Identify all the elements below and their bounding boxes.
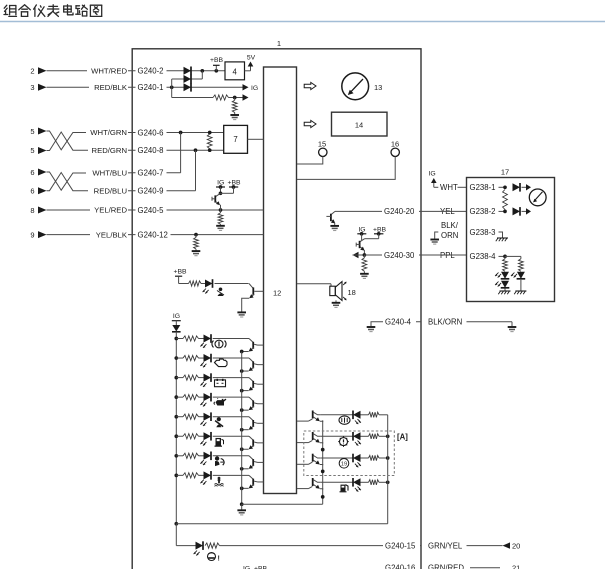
svg-text:20: 20 bbox=[512, 541, 520, 550]
resistor row 3 bbox=[183, 375, 199, 380]
hollow arrow 1 bbox=[304, 82, 316, 89]
pin label G238-3 bbox=[468, 227, 499, 237]
wire IC12 to speaker bbox=[297, 284, 331, 287]
rail dot washer fluid bbox=[386, 480, 390, 484]
svg-text:IG: IG bbox=[173, 313, 180, 320]
pin label G240-30 bbox=[382, 250, 419, 260]
svg-text:GRN/RED: GRN/RED bbox=[428, 564, 464, 569]
node dot sense bbox=[233, 96, 237, 100]
label BLK/ORN 2-line bbox=[441, 221, 459, 240]
regulator box 4 bbox=[225, 62, 245, 80]
wire G240-30 row bbox=[364, 254, 421, 256]
rail dot gear warning bbox=[386, 434, 390, 438]
wire row 1 bbox=[176, 338, 249, 340]
wire row 3 bbox=[176, 377, 249, 379]
svg-text:+BB: +BB bbox=[173, 268, 187, 275]
pin 20 arrow bbox=[503, 541, 521, 550]
node dot rail row 8 bbox=[174, 474, 178, 478]
rail diode D5 bbox=[172, 325, 181, 332]
brake LED D18 bbox=[176, 541, 203, 550]
svg-text:!: ! bbox=[218, 555, 220, 562]
twisted pair wire RED/BLU bbox=[47, 173, 133, 191]
speaker sound arrows bbox=[343, 282, 346, 301]
svg-text:RED/GRN: RED/GRN bbox=[92, 146, 127, 155]
LED D15 bbox=[353, 432, 361, 441]
resistor R6 bbox=[189, 281, 202, 286]
wire G238-4 branch bbox=[505, 256, 521, 258]
wire +BB LED row bbox=[179, 283, 249, 285]
LED D17 bbox=[353, 478, 361, 487]
node dot G240-6 bbox=[179, 131, 183, 135]
svg-text:WHT: WHT bbox=[440, 183, 458, 192]
node dot rail row 1 bbox=[174, 337, 178, 341]
icon brake warning bbox=[208, 553, 220, 563]
svg-text:7: 7 bbox=[233, 135, 237, 144]
svg-text:5V: 5V bbox=[247, 55, 256, 62]
resistor R9 vertical bbox=[503, 190, 508, 210]
wire row gear warning bbox=[321, 435, 388, 437]
wire YEL to G238-2 bbox=[421, 210, 467, 212]
svg-text:G238-1: G238-1 bbox=[470, 183, 496, 192]
LED D10 bbox=[204, 412, 212, 421]
node dot G238-4 bbox=[503, 255, 507, 259]
+BB supply stub Q12 bbox=[373, 226, 387, 235]
svg-text:21: 21 bbox=[512, 564, 520, 569]
LED D4 bbox=[205, 279, 213, 288]
transistor Q6 bbox=[242, 397, 264, 410]
pin label G240-1 bbox=[136, 83, 167, 93]
resistor row 2 bbox=[183, 355, 199, 360]
icon washer fluid bbox=[340, 485, 349, 492]
label WHT/BLU bbox=[86, 168, 128, 178]
+BB supply stub LED row bbox=[173, 268, 187, 283]
resistor row 5 bbox=[183, 414, 199, 419]
pin 5 arrow (top) bbox=[30, 127, 46, 136]
emitter rail dot row 8 bbox=[240, 487, 244, 491]
wire pin2 to G240-2 bbox=[47, 70, 133, 72]
ground G6 bbox=[330, 226, 339, 231]
pin 9 arrow bbox=[30, 230, 46, 239]
resistor R11 vertical bbox=[519, 259, 524, 272]
svg-text:IG: IG bbox=[217, 179, 224, 186]
IG supply stub Q12 bbox=[357, 226, 366, 235]
right feed rail bbox=[387, 415, 389, 524]
emitter rail dot row 2 bbox=[240, 369, 244, 373]
icon coolant temp bbox=[215, 477, 224, 487]
ground G12 hatched bbox=[514, 280, 526, 294]
ground G10 hatched bbox=[496, 238, 508, 241]
resistor R5 vertical bbox=[194, 235, 199, 249]
pin label G240-4 bbox=[383, 317, 416, 327]
wire G238-3 stub bbox=[499, 232, 503, 238]
cross wire emitters right cluster bbox=[242, 503, 323, 505]
wire pin8 to G240-5 bbox=[47, 209, 133, 211]
node dot G240-30 bbox=[363, 253, 367, 257]
label YEL/BLK bbox=[90, 230, 128, 240]
node dot G240-2 bbox=[200, 69, 204, 73]
ground G7 bbox=[360, 271, 369, 278]
title 组合仪表电路图 (drawn strokes) bbox=[4, 5, 102, 17]
svg-text:BLK/: BLK/ bbox=[441, 221, 459, 230]
LED D16 bbox=[353, 454, 361, 463]
LED D6 emission arrows bbox=[200, 343, 206, 348]
node dot rail row 6 bbox=[174, 434, 178, 438]
svg-text:G238-4: G238-4 bbox=[470, 252, 497, 261]
svg-text:+BB: +BB bbox=[373, 226, 387, 233]
gauge 17 meter bbox=[529, 189, 546, 206]
label WHT/GRN bbox=[86, 128, 128, 138]
svg-text:G240-9: G240-9 bbox=[138, 187, 164, 196]
icon seat-belt reminder bbox=[217, 288, 224, 297]
ground G2 bbox=[216, 224, 225, 230]
terminal 15 bbox=[318, 139, 327, 156]
arrowhead sense bbox=[243, 94, 249, 100]
pin label G238-4 bbox=[468, 251, 506, 261]
label PPL bbox=[438, 250, 456, 260]
left arrowhead G240-30 bbox=[353, 252, 365, 258]
pin 6 arrow (top) bbox=[30, 168, 46, 177]
LED D9 emission arrows bbox=[200, 401, 206, 406]
svg-text:13: 13 bbox=[374, 83, 382, 92]
transistor Q1 bbox=[212, 187, 234, 210]
wire G240-1 row bbox=[132, 86, 245, 88]
resistor row 6 bbox=[183, 434, 199, 439]
transistor Q12 bbox=[356, 234, 379, 255]
wire row 5 bbox=[176, 416, 249, 418]
resistor R8 bbox=[205, 543, 220, 548]
LED D21 bbox=[501, 272, 510, 279]
wire G240-5 row bbox=[132, 209, 263, 211]
icon seat belt bbox=[215, 417, 223, 427]
LED D12 emission arrows bbox=[200, 460, 206, 465]
left ground bracket G240-4 bbox=[367, 322, 421, 332]
LED D13 emission arrows bbox=[200, 480, 206, 485]
label GRN/YEL bbox=[426, 541, 466, 551]
wire G240-20 row bbox=[335, 210, 421, 212]
pin label G238-1 bbox=[468, 183, 506, 193]
connector box 1 outline bbox=[132, 49, 421, 569]
transistor Q11 bbox=[326, 211, 335, 225]
svg-text:G240-2: G240-2 bbox=[138, 67, 164, 76]
IG supply bracket bbox=[429, 170, 439, 187]
5V output arrow bbox=[245, 55, 256, 71]
LED D15 emission arrows bbox=[355, 441, 361, 446]
svg-text:3: 3 bbox=[30, 83, 34, 92]
label 1 bbox=[277, 39, 281, 48]
resistor R7 vertical bbox=[362, 255, 367, 271]
node dot rail row 4 bbox=[174, 395, 178, 399]
svg-text:G240-1: G240-1 bbox=[138, 83, 164, 92]
svg-text:6: 6 bbox=[30, 187, 34, 196]
resistor row gear warning bbox=[369, 434, 380, 439]
hollow arrow 2 bbox=[304, 120, 316, 127]
label WHT/RED bbox=[87, 66, 128, 76]
svg-text:1: 1 bbox=[277, 39, 281, 48]
svg-text:G240-8: G240-8 bbox=[138, 146, 164, 155]
transistor Q10 bbox=[242, 475, 264, 488]
icon brake fluid bbox=[212, 340, 226, 348]
LED D23 emission arrows bbox=[511, 273, 517, 278]
wire terminal 15 to IC12 bbox=[297, 157, 323, 165]
pin 8 arrow bbox=[30, 206, 46, 215]
svg-text:G240-15: G240-15 bbox=[385, 541, 416, 550]
svg-text:YEL/RED: YEL/RED bbox=[94, 206, 127, 215]
LED D22 emission arrows bbox=[495, 282, 501, 287]
label 18 bbox=[348, 288, 356, 297]
pin label G238-2 bbox=[468, 206, 506, 216]
transistor Q9 bbox=[242, 456, 264, 469]
resistor row 7 bbox=[183, 453, 199, 458]
wire pin3 to G240-1 bbox=[47, 86, 133, 88]
dashed box [A] bbox=[304, 431, 395, 476]
pin label G240-15 bbox=[383, 541, 420, 551]
label YEL bbox=[438, 207, 456, 217]
wire base Q16 from IC12 bbox=[297, 488, 309, 490]
svg-text:WHT/RED: WHT/RED bbox=[91, 66, 127, 75]
pin label G240-12 bbox=[136, 230, 171, 240]
label [A] bbox=[397, 433, 408, 442]
node dot rail row 7 bbox=[174, 454, 178, 458]
svg-text:RED/BLK: RED/BLK bbox=[94, 83, 128, 92]
wire G240-9 row bbox=[132, 190, 195, 192]
label RED/BLU bbox=[88, 186, 128, 196]
LED D16 emission arrows bbox=[355, 462, 361, 467]
label 13 bbox=[374, 83, 382, 92]
resistor row 4 bbox=[183, 395, 199, 400]
IG rail vertical bbox=[175, 332, 177, 524]
ground G5 main bbox=[237, 504, 246, 515]
wire G240-12 row bbox=[132, 234, 263, 236]
LED D11 bbox=[204, 432, 212, 441]
emitter rail dot row 1 bbox=[240, 350, 244, 354]
link G240-7 to G240-6 bbox=[180, 133, 182, 173]
icon charge/battery bbox=[215, 380, 226, 387]
ground G4 bbox=[237, 312, 246, 317]
IG supply stub Q1 bbox=[216, 179, 225, 189]
sense branch wire bbox=[172, 87, 247, 97]
svg-text:YEL/BLK: YEL/BLK bbox=[96, 230, 128, 239]
svg-text:G240-4: G240-4 bbox=[385, 318, 412, 327]
svg-text:[A]: [A] bbox=[397, 433, 408, 442]
+BB tap at top bbox=[210, 57, 224, 73]
node dot G240-12 bbox=[194, 233, 198, 237]
wire row 4 bbox=[176, 396, 249, 398]
wire box7 to IC12 bbox=[248, 138, 264, 140]
icon security indicator bbox=[339, 416, 350, 424]
ground bracket G238-3 bbox=[430, 232, 439, 244]
svg-text:4: 4 bbox=[233, 67, 238, 76]
label RED/GRN bbox=[88, 146, 128, 156]
ground G9 bbox=[508, 327, 517, 332]
rail dot indicator 19 bbox=[386, 456, 390, 460]
svg-text:IG: IG bbox=[429, 170, 436, 177]
svg-text:G240-16: G240-16 bbox=[385, 564, 415, 569]
svg-text:5: 5 bbox=[30, 146, 34, 155]
pin label G240-6 bbox=[136, 128, 167, 138]
resistor R4 vertical bbox=[218, 210, 223, 224]
wire row 8 bbox=[176, 474, 249, 476]
resistor row 1 bbox=[183, 336, 199, 341]
node dot rail row 3 bbox=[174, 376, 178, 380]
wire base Q14 from IC12 bbox=[297, 442, 309, 444]
pin label G240-7 bbox=[136, 168, 167, 178]
LED D23 bbox=[517, 272, 526, 279]
LED D22 bbox=[501, 281, 510, 288]
node dot G238-2 bbox=[503, 210, 507, 214]
pin label G240-8 bbox=[136, 145, 167, 155]
LED D6 bbox=[204, 334, 212, 343]
svg-text:G238-3: G238-3 bbox=[470, 228, 496, 237]
svg-text:G238-2: G238-2 bbox=[470, 207, 496, 216]
emitter rail dot row 5 bbox=[240, 428, 244, 432]
rail dot security indicator bbox=[387, 414, 389, 416]
transistor Q15 bbox=[309, 454, 323, 466]
twisted pair wire WHT/BLU bbox=[47, 172, 133, 190]
svg-text:G240-12: G240-12 bbox=[138, 230, 168, 239]
resistor R2 vertical bbox=[232, 98, 237, 113]
icon oil pressure bbox=[214, 398, 226, 405]
svg-text:18: 18 bbox=[348, 288, 356, 297]
transistor Q13 bbox=[309, 411, 323, 423]
icon gear warning bbox=[338, 436, 349, 447]
icon check engine bbox=[215, 359, 228, 367]
wire pin9 to G240-12 bbox=[47, 234, 133, 236]
icon indicator 19 bbox=[339, 459, 349, 469]
LED D7 bbox=[204, 354, 212, 363]
wire row security indicator bbox=[321, 414, 388, 416]
LED D11 emission arrows bbox=[200, 441, 206, 446]
resistor R1 horizontal bbox=[213, 95, 229, 100]
LED D7 emission arrows bbox=[200, 362, 206, 367]
twisted pair wire RED/GRN bbox=[47, 132, 133, 151]
emitter rail vertical bbox=[241, 352, 243, 505]
wire GRN/YEL to pin 20 bbox=[467, 545, 503, 547]
transistor Q14 bbox=[309, 432, 323, 444]
svg-text:G240-7: G240-7 bbox=[138, 169, 164, 178]
resistor R3 vertical bbox=[207, 134, 212, 149]
svg-text:RED/BLU: RED/BLU bbox=[94, 186, 127, 195]
emitter rail dot row 6 bbox=[240, 447, 244, 451]
transistor Q7 bbox=[242, 417, 264, 430]
LED D18 emission arrow bbox=[194, 551, 200, 556]
wire G240-15 row bbox=[220, 545, 422, 547]
svg-text:WHT/BLU: WHT/BLU bbox=[92, 169, 127, 178]
pin label G240-20 bbox=[382, 207, 419, 217]
pin label G240-2 bbox=[136, 66, 167, 76]
svg-text:8: 8 bbox=[30, 206, 34, 215]
svg-text:16: 16 bbox=[391, 139, 399, 148]
wire rail down to brake LED bbox=[175, 524, 177, 546]
LED D14 emission arrows bbox=[355, 419, 361, 424]
resistor row washer fluid bbox=[369, 480, 380, 485]
emitter rail dot at cross wire bbox=[240, 502, 244, 506]
diode D3 middle branch bbox=[184, 75, 192, 84]
svg-text:15: 15 bbox=[318, 139, 326, 148]
node dot G238-1 bbox=[503, 185, 507, 189]
label WHT bbox=[440, 183, 467, 192]
label RED/BLK bbox=[89, 83, 128, 93]
svg-text:+BB: +BB bbox=[210, 57, 224, 64]
svg-text:BLK/ORN: BLK/ORN bbox=[428, 318, 462, 327]
svg-text:12: 12 bbox=[273, 288, 281, 297]
svg-text:+BB: +BB bbox=[227, 179, 241, 186]
wire PPL to G238-4 bbox=[421, 254, 467, 256]
node dot G240-5 bbox=[219, 208, 223, 212]
svg-text:G240-30: G240-30 bbox=[384, 251, 415, 260]
LED D9 bbox=[204, 393, 212, 402]
resistor row 8 bbox=[183, 473, 199, 478]
node dot G240-8 bbox=[194, 148, 198, 152]
emitter rail dot row 3 bbox=[240, 389, 244, 393]
ground G3 bbox=[192, 249, 201, 256]
svg-text:IG: IG bbox=[251, 85, 258, 92]
ground G8 speaker bbox=[332, 300, 341, 307]
+BB supply stub Q1 bbox=[227, 179, 241, 189]
wire G240-8 row bbox=[132, 149, 224, 151]
wire row washer fluid bbox=[321, 481, 388, 483]
LED D14 bbox=[353, 411, 361, 420]
svg-text:5: 5 bbox=[30, 127, 34, 136]
svg-text:WHT/GRN: WHT/GRN bbox=[90, 128, 127, 137]
transistor Q5 bbox=[242, 378, 264, 391]
partial bottom row (cut off) bbox=[243, 564, 520, 569]
connector box 17 outline bbox=[467, 178, 555, 302]
wire base Q15 from IC12 bbox=[297, 463, 309, 465]
resistor row indicator 19 bbox=[369, 455, 380, 460]
svg-text:ORN: ORN bbox=[441, 231, 458, 240]
svg-text:IG: IG bbox=[243, 565, 250, 569]
svg-text:6: 6 bbox=[30, 168, 34, 177]
wire G240-7 row bbox=[132, 172, 180, 174]
svg-text:9: 9 bbox=[30, 230, 34, 239]
svg-text:19: 19 bbox=[341, 462, 347, 468]
resistor row security indicator bbox=[369, 412, 380, 417]
pin 6 arrow (bottom) bbox=[30, 187, 46, 196]
wire G240-6 row bbox=[132, 132, 224, 134]
icon airbag bbox=[215, 456, 224, 466]
blue divider line bbox=[0, 21, 605, 23]
node dot rail row 2 bbox=[174, 356, 178, 360]
terminal 16 bbox=[391, 139, 400, 156]
wire row 6 bbox=[176, 435, 249, 437]
svg-text:G240-5: G240-5 bbox=[138, 206, 165, 215]
LED D8 emission arrows bbox=[200, 382, 206, 387]
LED D21 emission arrows bbox=[495, 273, 501, 278]
interface box 7 bbox=[224, 125, 248, 153]
IG output arrow bbox=[243, 84, 259, 92]
display box 14 bbox=[332, 112, 388, 136]
diode D1 on G240-2 bbox=[184, 67, 192, 76]
wire terminal 16 to IC12 bbox=[297, 157, 395, 180]
node dot G240-1 bbox=[170, 85, 174, 89]
transistor Q2 bbox=[242, 284, 264, 312]
LED D10 emission arrows bbox=[200, 421, 206, 426]
wire base Q13 from IC12 bbox=[297, 420, 309, 422]
node dots resistor R3 bbox=[208, 131, 212, 152]
transistor Q3 bbox=[242, 339, 264, 352]
diode D19 bbox=[513, 183, 532, 192]
ground G1 bbox=[230, 113, 239, 120]
node dot rail row 5 bbox=[174, 415, 178, 419]
LED D12 bbox=[204, 452, 212, 461]
transistor Q4 bbox=[242, 358, 264, 371]
pin 3 arrow bbox=[30, 83, 46, 92]
label 12 bbox=[273, 288, 281, 297]
label BLK/ORN bbox=[426, 317, 466, 327]
link G240-9 to G240-8 bbox=[195, 150, 197, 191]
LED D17 emission arrows bbox=[355, 487, 361, 492]
LED D4 emission arrows bbox=[203, 289, 209, 294]
